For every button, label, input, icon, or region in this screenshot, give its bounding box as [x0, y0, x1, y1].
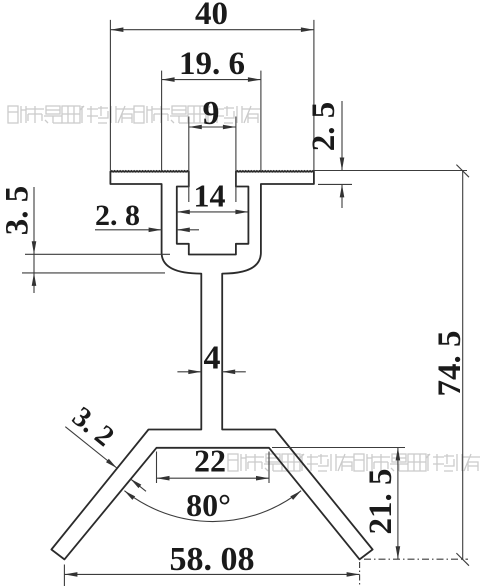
svg-text:80°: 80° [186, 487, 231, 523]
svg-text:74. 5: 74. 5 [432, 331, 468, 397]
svg-text:2. 8: 2. 8 [95, 199, 140, 232]
dimension 21.5 [272, 448, 405, 560]
svg-text:4: 4 [204, 340, 221, 377]
svg-text:40: 40 [195, 0, 228, 32]
dimension 9 [189, 95, 236, 202]
dimension 14 [177, 178, 249, 215]
dimension 40 [110, 0, 314, 171]
dimension 80 degrees [124, 487, 301, 523]
svg-text:58. 08: 58. 08 [170, 541, 255, 578]
dimension 74.5 [314, 165, 469, 566]
profile outline [51, 172, 372, 560]
serrated top edge left [110, 171, 188, 173]
dimension 2.8 [95, 199, 199, 232]
dimension 3.2 leader [65, 401, 146, 492]
svg-text:9: 9 [203, 95, 220, 132]
svg-text:14: 14 [194, 178, 226, 214]
dimension 19.6 [162, 46, 261, 171]
dimension 22 [157, 443, 270, 484]
dimension 58.08 [64, 541, 359, 586]
watermark line 2 [228, 454, 480, 471]
svg-text:2. 5: 2. 5 [306, 102, 342, 152]
svg-text:3. 5: 3. 5 [0, 186, 36, 236]
svg-text:21. 5: 21. 5 [363, 469, 399, 535]
dimension 3.5 [0, 186, 170, 293]
dimension 2.5 [306, 101, 467, 208]
svg-text:19. 6: 19. 6 [179, 46, 245, 82]
dimension 4 [177, 340, 245, 377]
serrated top edge right [236, 171, 314, 173]
svg-text:22: 22 [194, 443, 226, 479]
watermark line 1 [8, 106, 260, 123]
